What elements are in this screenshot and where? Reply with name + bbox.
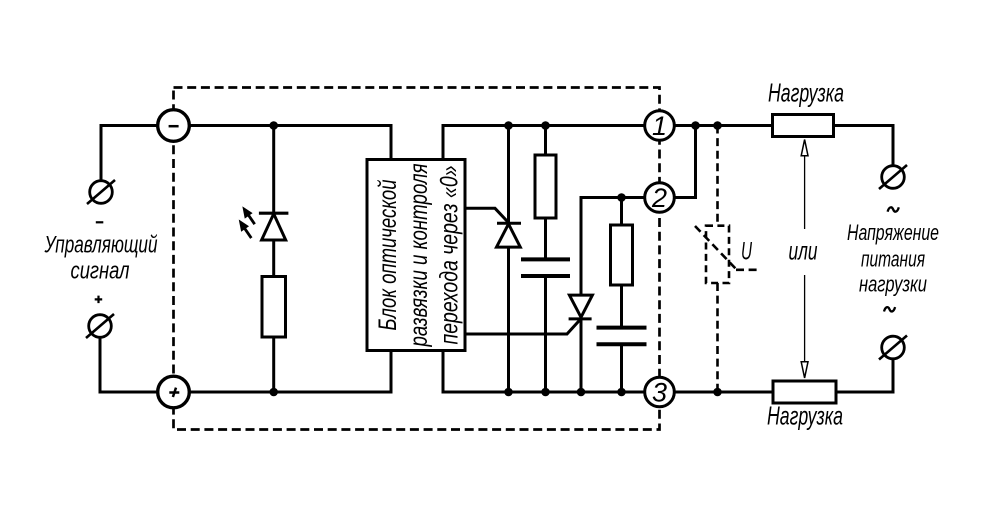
junction dot top rail LED (269, 121, 278, 130)
svg-text:Нагрузка: Нагрузка (767, 401, 843, 431)
control input slash terminal minus (90, 181, 113, 204)
wire load 2 to right bottom terminal (836, 359, 893, 392)
wire: top rail right segment (block stub to terminal 1) (443, 126, 645, 160)
svg-text:U: U (741, 238, 753, 266)
minus sign inside circle (169, 125, 179, 128)
LED optocoupler input: anode wire (272, 126, 275, 214)
svg-text:2: 2 (651, 183, 667, 213)
LED emission arrow 1 (244, 208, 255, 224)
svg-text:1: 1 (652, 111, 667, 141)
LED emission arrow 2 (240, 221, 251, 238)
junction dot bottom rail VS1 (504, 388, 513, 397)
capacitor C2 plates (597, 328, 647, 345)
junction dot top rail VS1 (504, 121, 513, 130)
label tilde bottom (884, 307, 895, 311)
plus sign inside circle (169, 388, 179, 397)
thyristor VS2 cathode wire to bottom rail (580, 319, 583, 392)
label tilde top (888, 207, 899, 211)
or-arrow head top (801, 140, 808, 156)
block U1 optical isolation box (367, 160, 465, 351)
wire: top rail left segment (minus circle to block stub) (190, 126, 392, 160)
thyristor VS1 cathode bar (497, 222, 521, 225)
wire: control left bottom (slash terminal to plus circle) (100, 337, 158, 392)
wire load 1 to right terminal (834, 126, 894, 166)
resistor R2 snubber wire from top rail (544, 126, 547, 156)
junction dot terminal2 wire R3 (617, 193, 626, 202)
junction dot bottom rail LED (269, 388, 278, 397)
LED triangle (262, 214, 286, 240)
label minus sign control input (96, 221, 104, 223)
varistor RU1 dashed branch wire top (716, 126, 719, 226)
thyristor VS2 gate wire from block (466, 320, 581, 334)
svg-text:Нагрузка: Нагрузка (768, 78, 844, 108)
svg-text:или: или (789, 236, 818, 266)
varistor RU1 diagonal stroke (695, 226, 757, 270)
wire R2 to capacitor C1 (544, 218, 547, 259)
thyristor VS2 triangle (569, 295, 592, 317)
wire: bottom rail right segment (block stub to terminal 3) (443, 351, 644, 393)
wire terminal 2 to thyristor VS2 (581, 198, 645, 296)
svg-text:3: 3 (652, 378, 667, 408)
junction dot bottom rail VS2 (577, 388, 586, 397)
thyristor VS1 triangle (497, 224, 521, 247)
control input slash terminal plus (89, 315, 112, 338)
junction dot top rail terminal2 riser (691, 121, 700, 130)
junction dot bottom rail C1 (541, 388, 550, 397)
svg-text:развязки и контроля: развязки и контроля (405, 164, 433, 348)
terminal 1 circle (645, 111, 675, 141)
wire C2 to bottom rail (620, 344, 623, 392)
varistor RU1 dashed branch wire bottom (716, 283, 719, 392)
terminal 2 circle (645, 183, 675, 213)
wire LED to resistor R1 (272, 240, 275, 277)
resistor R2 (535, 155, 556, 218)
wire: control left top (slash terminal to minus circle) (101, 126, 158, 182)
load resistor top (Nagruzka) (773, 115, 834, 137)
svg-text:нагрузки: нагрузки (859, 272, 927, 297)
svg-text:перехода через «0»: перехода через «0» (436, 166, 464, 345)
supply slash terminal top right (882, 166, 905, 189)
wire C1 to bottom rail (544, 276, 547, 392)
svg-text:Напряжение: Напряжение (847, 220, 939, 245)
wire R3 to capacitor C2 (620, 285, 623, 328)
capacitor C1 plates (521, 259, 570, 276)
thyristor VS1 anode wire from top rail (507, 126, 510, 224)
enclosure dashed border (174, 88, 660, 430)
wire terminal 1 to load 1 (674, 124, 772, 127)
svg-text:питания: питания (861, 247, 925, 272)
svg-text:Блок оптической: Блок оптической (374, 179, 402, 330)
varistor RU1 dashed box (706, 226, 729, 283)
label plus sign control input (95, 296, 103, 304)
minus supply circle (158, 110, 190, 142)
wire terminal 3 to load 2 (674, 391, 773, 394)
resistor R3 wire from terminal2 wire (620, 198, 623, 226)
svg-text:сигнал: сигнал (71, 258, 130, 285)
wire: bottom rail left segment (plus circle to block stub) (190, 351, 392, 393)
or-arrow vertical line (804, 155, 806, 363)
terminal 3 circle (645, 377, 675, 407)
LED cathode bar (259, 212, 289, 215)
junction dot bottom rail C2 (617, 388, 626, 397)
svg-text:Управляющий: Управляющий (44, 232, 158, 259)
resistor R1 (input) (262, 277, 286, 338)
junction dot top rail varistor (713, 121, 722, 130)
or-arrow head bottom (801, 362, 808, 378)
load resistor bottom (Nagruzka) (773, 381, 836, 403)
wire terminal 2 to top rail junction (674, 126, 695, 198)
thyristor VS1 cathode wire to bottom rail (507, 247, 510, 392)
thyristor VS1 gate wire from block (466, 208, 509, 222)
junction dot top rail R2 (541, 121, 550, 130)
plus supply circle (158, 376, 190, 408)
wire resistor R1 to bottom rail (272, 337, 275, 392)
thyristor VS2 cathode bar (569, 317, 592, 320)
supply slash terminal bottom right (882, 336, 905, 359)
resistor R3 (611, 225, 633, 285)
junction dot bottom rail varistor (713, 388, 722, 397)
